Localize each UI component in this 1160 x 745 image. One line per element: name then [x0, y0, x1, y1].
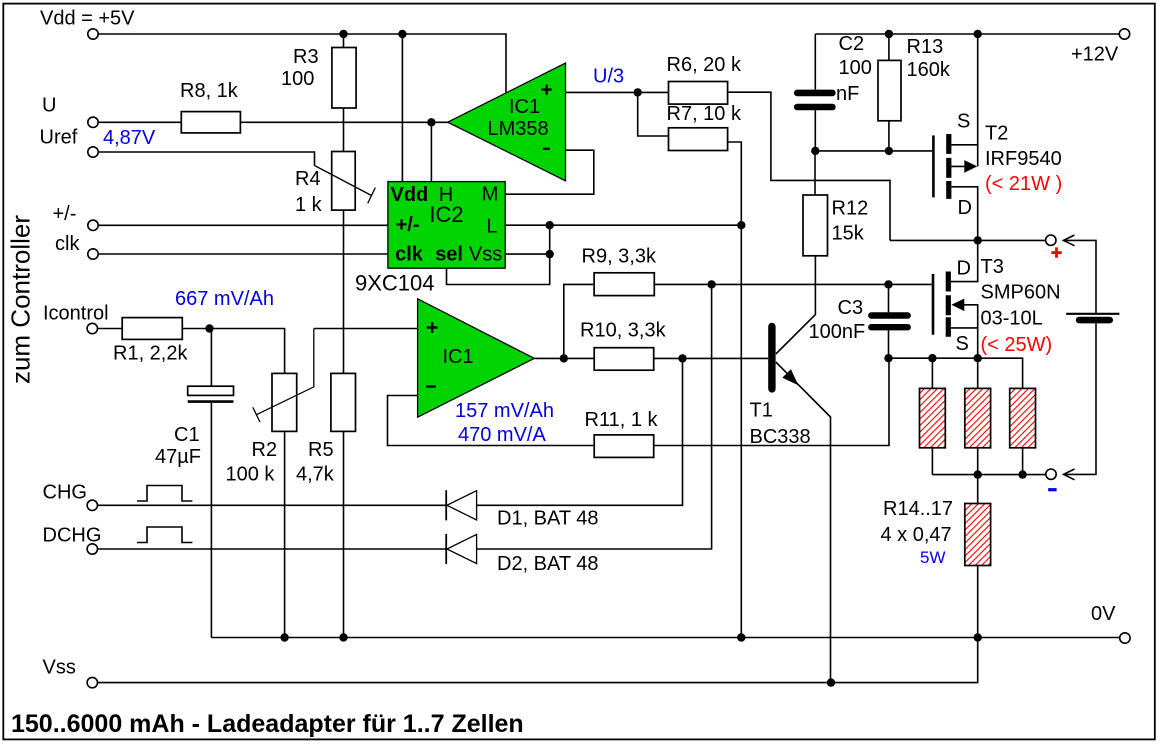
wire IC1b - input to R11 — [388, 396, 595, 446]
wire R7 to ground bus — [728, 142, 742, 638]
svg-text:Vss: Vss — [469, 244, 502, 266]
capacitor C3 100nF — [809, 284, 908, 358]
wire IC2 Vdd pin — [401, 34, 403, 182]
terminal CHG — [87, 500, 97, 510]
svg-text:sel: sel — [435, 244, 463, 266]
terminal Uref — [88, 147, 98, 157]
terminal +12V — [1119, 29, 1129, 39]
wire R10 to T1 base — [654, 357, 768, 359]
svg-text:9XC104: 9XC104 — [355, 271, 435, 296]
resistor R16 0,47 — [1010, 388, 1036, 474]
resistor R8 1k — [98, 80, 240, 133]
terminal Vss — [87, 677, 97, 687]
wire battery - lead with arrow — [1064, 323, 1097, 474]
junction rail / T2 source — [974, 30, 982, 38]
label + red — [1051, 247, 1061, 257]
resistor R12 15k — [803, 151, 868, 256]
wire IC2 H pin — [430, 122, 432, 181]
junction 0V / R5 — [339, 633, 347, 641]
resistor R15 0,47 — [965, 358, 991, 474]
junction gate line / C2 — [811, 147, 819, 155]
svg-text:IC1: IC1 — [509, 96, 540, 118]
junction R9 / D2 — [707, 280, 715, 288]
svg-text:D: D — [958, 197, 972, 219]
wire CHG to D1 — [98, 504, 447, 506]
svg-text:CHG: CHG — [43, 482, 87, 504]
wire Uref to R4 wiper — [98, 152, 314, 166]
svg-text:Vdd = +5V: Vdd = +5V — [40, 8, 135, 30]
svg-text:S: S — [956, 333, 969, 355]
junction R10 / D1 — [678, 354, 686, 362]
svg-text:IC2: IC2 — [429, 202, 463, 227]
diode D1 BAT48 — [446, 490, 598, 529]
svg-text:R14..17: R14..17 — [883, 498, 953, 520]
op-amp IC1b LM358 — [418, 299, 535, 417]
wire R9 to C3 / T3 gate — [654, 283, 931, 285]
junction C3 top — [884, 280, 892, 288]
svg-text:0V: 0V — [1091, 603, 1116, 625]
svg-text:(< 21W ): (< 21W ) — [985, 173, 1062, 195]
svg-text:R7, 10 k: R7, 10 k — [667, 103, 742, 125]
junction bus / R15 R17 — [974, 470, 982, 478]
resistor R6 20k — [638, 54, 742, 104]
pulse symbol CHG — [137, 486, 192, 502]
terminal 0V — [1120, 633, 1130, 643]
wire R1 to R2 top — [182, 329, 284, 374]
svg-text:IC1: IC1 — [443, 346, 474, 368]
wire U line to IC1a — [240, 121, 447, 123]
resistor R11 1k — [585, 409, 659, 457]
svg-text:R13: R13 — [907, 36, 944, 58]
junction L / ground bus — [737, 221, 745, 229]
battery BAT 1..7 cells — [1066, 314, 1119, 320]
svg-text:100nF: 100nF — [809, 321, 866, 343]
transistor T2 IRF9540 — [933, 34, 1062, 240]
svg-text:zum Controller: zum Controller — [6, 215, 36, 384]
svg-text:Vdd: Vdd — [391, 184, 429, 206]
svg-text:M: M — [482, 184, 499, 206]
resistor R13 160k — [878, 34, 951, 151]
svg-text:C1: C1 — [174, 424, 200, 446]
resistor R17 0,47 with labels R14..17 — [881, 475, 991, 638]
resistor R7 10k — [667, 103, 742, 150]
svg-text:clk: clk — [395, 244, 424, 266]
svg-text:4 x 0,47: 4 x 0,47 — [881, 524, 952, 546]
svg-text:03-10L: 03-10L — [981, 308, 1043, 330]
svg-text:160k: 160k — [907, 59, 951, 81]
junction sense / C3 R11 — [884, 354, 892, 362]
svg-text:D: D — [957, 258, 971, 280]
wire output to R9 — [564, 284, 594, 358]
svg-text:R9, 3,3k: R9, 3,3k — [582, 245, 657, 267]
svg-text:1 k: 1 k — [295, 194, 323, 216]
svg-text:R2: R2 — [252, 439, 278, 461]
wire IC1a - input to IC2 M — [505, 150, 594, 194]
terminal clk — [88, 249, 98, 259]
wire C2/R13 to T2 gate — [815, 150, 932, 152]
junction U line / IC2 H — [427, 118, 435, 126]
junction sense / T3 source R15 — [974, 354, 982, 362]
wire IC2 Vss and sel pins — [447, 225, 550, 284]
wire D1 to R10 node — [477, 358, 683, 505]
wire +12V rail — [815, 33, 1119, 35]
potentiometer R4 1k — [295, 152, 375, 217]
wire D2 to R9 node — [477, 284, 712, 549]
svg-text:C2: C2 — [839, 33, 865, 55]
svg-text:R10, 3,3k: R10, 3,3k — [580, 319, 667, 341]
junction Icontrol node — [205, 324, 213, 332]
terminal battery - — [1046, 469, 1056, 479]
svg-text:R3: R3 — [293, 46, 319, 68]
svg-text:100: 100 — [839, 57, 872, 79]
svg-text:R6, 20 k: R6, 20 k — [667, 54, 742, 76]
svg-text:4,7k: 4,7k — [296, 464, 335, 486]
potentiometer R2 100k — [226, 329, 314, 638]
resistor R5 4,7k — [296, 210, 356, 637]
wire clk to IC2 — [98, 253, 388, 255]
svg-text:S: S — [957, 110, 970, 132]
svg-text:Icontrol: Icontrol — [43, 303, 109, 325]
svg-text:+/-: +/- — [53, 203, 77, 225]
resistor R9 3,3k — [582, 245, 657, 295]
svg-text:C3: C3 — [838, 297, 864, 319]
terminal Vdd — [88, 29, 98, 39]
wire sense bottom bus — [932, 474, 1045, 476]
svg-text:15k: 15k — [832, 223, 865, 245]
junction +5V rail / R3 — [339, 30, 347, 38]
svg-text:T2: T2 — [985, 123, 1008, 145]
svg-text:5W: 5W — [920, 548, 946, 567]
transistor T3 SMP60N03-10L — [933, 240, 1061, 358]
svg-text:100: 100 — [281, 68, 314, 90]
svg-text:Vss: Vss — [43, 657, 76, 679]
svg-text:(< 25W): (< 25W) — [981, 334, 1053, 356]
wire R2 wiper to IC1b + input — [314, 328, 418, 330]
wire R6 to output node — [728, 92, 890, 240]
terminal Icontrol — [87, 323, 97, 333]
svg-text:R8, 1k: R8, 1k — [180, 80, 239, 102]
junction +5V rail / IC2 Vdd — [398, 30, 406, 38]
resistor R10 3,3k — [580, 319, 667, 370]
svg-text:D1, BAT 48: D1, BAT 48 — [497, 508, 599, 530]
label - blue — [1048, 488, 1056, 491]
terminal +/- — [88, 220, 98, 230]
svg-text:Uref: Uref — [40, 127, 78, 149]
svg-text:R5: R5 — [308, 439, 334, 461]
junction 0V / R17 Vss — [974, 633, 982, 641]
svg-text:157 mV/Ah: 157 mV/Ah — [455, 400, 554, 422]
junction sense / R14 — [928, 354, 936, 362]
svg-text:R12: R12 — [832, 198, 869, 220]
wire battery + lead with arrow — [1064, 240, 1097, 313]
svg-text:R1, 2,2k: R1, 2,2k — [113, 343, 188, 365]
terminal U — [88, 117, 98, 127]
junction 0V / ground bus — [737, 633, 745, 641]
diode D2 BAT48 — [446, 534, 598, 575]
capacitor C2 100nF — [797, 33, 872, 151]
wire DCHG to D2 — [98, 548, 447, 550]
svg-text:SMP60N: SMP60N — [981, 282, 1061, 304]
wire U/3 node to R7 — [638, 92, 669, 136]
svg-text:667 mV/Ah: 667 mV/Ah — [175, 288, 274, 310]
wire sense node line — [889, 358, 1023, 388]
svg-text:U/3: U/3 — [593, 65, 624, 87]
svg-text:BC338: BC338 — [750, 426, 811, 448]
svg-text:+/-: +/- — [396, 214, 420, 236]
resistor R14 0,47 — [920, 358, 946, 474]
svg-text:100 k: 100 k — [226, 464, 276, 486]
junction Vss pin — [546, 250, 554, 258]
wire Vss line — [98, 638, 978, 683]
svg-text:150..6000 mAh - Ladeadapter fü: 150..6000 mAh - Ladeadapter für 1..7 Zel… — [11, 710, 524, 738]
junction rail / R13 — [885, 30, 893, 38]
svg-text:IRF9540: IRF9540 — [985, 148, 1062, 170]
svg-text:nF: nF — [836, 83, 859, 105]
junction L / Vss tie — [546, 221, 554, 229]
transistor T1 BC338 — [750, 256, 831, 683]
wire +5V rail — [98, 34, 506, 93]
svg-text:clk: clk — [55, 233, 80, 255]
svg-text:LM358: LM358 — [488, 118, 549, 140]
terminal DCHG — [87, 544, 97, 554]
resistor R3 100 — [281, 34, 356, 152]
svg-text:L: L — [486, 216, 497, 238]
wire IC2 L pin — [505, 224, 741, 226]
wire 0V rail — [211, 637, 1119, 639]
svg-text:470 mV/A: 470 mV/A — [458, 424, 546, 446]
svg-text:R11, 1 k: R11, 1 k — [585, 409, 659, 431]
svg-text:47µF: 47µF — [155, 446, 201, 468]
junction gate line / R13 — [885, 147, 893, 155]
pulse symbol DCHG — [137, 527, 192, 543]
svg-text:U: U — [42, 95, 56, 117]
wire +/- to IC2 — [98, 224, 388, 226]
junction Vss / T1 emitter — [827, 678, 835, 686]
wire IC1a + input — [566, 91, 638, 93]
svg-text:D2, BAT 48: D2, BAT 48 — [497, 553, 599, 575]
svg-text:+12V: +12V — [1071, 44, 1119, 66]
wire IC1b output — [534, 357, 594, 359]
junction IC1b output — [560, 354, 568, 362]
resistor R1 2,2k — [98, 318, 189, 365]
wire output node to + terminal — [890, 239, 1046, 241]
svg-text:T1: T1 — [750, 400, 773, 422]
junction 0V / R2 — [280, 633, 288, 641]
op-amp IC1a LM358 — [448, 63, 566, 181]
svg-text:R4: R4 — [295, 168, 321, 190]
junction U/3 node — [634, 88, 642, 96]
junction bus / R16 — [1018, 470, 1026, 478]
IC IC2 9XC104 — [355, 182, 505, 296]
terminal battery + — [1046, 235, 1056, 245]
svg-text:T3: T3 — [981, 256, 1004, 278]
wire R11 to sense node — [654, 358, 889, 445]
junction output node / T2 drain — [974, 236, 982, 244]
capacitor C1 47uF — [155, 329, 234, 638]
svg-text:4,87V: 4,87V — [103, 127, 156, 149]
